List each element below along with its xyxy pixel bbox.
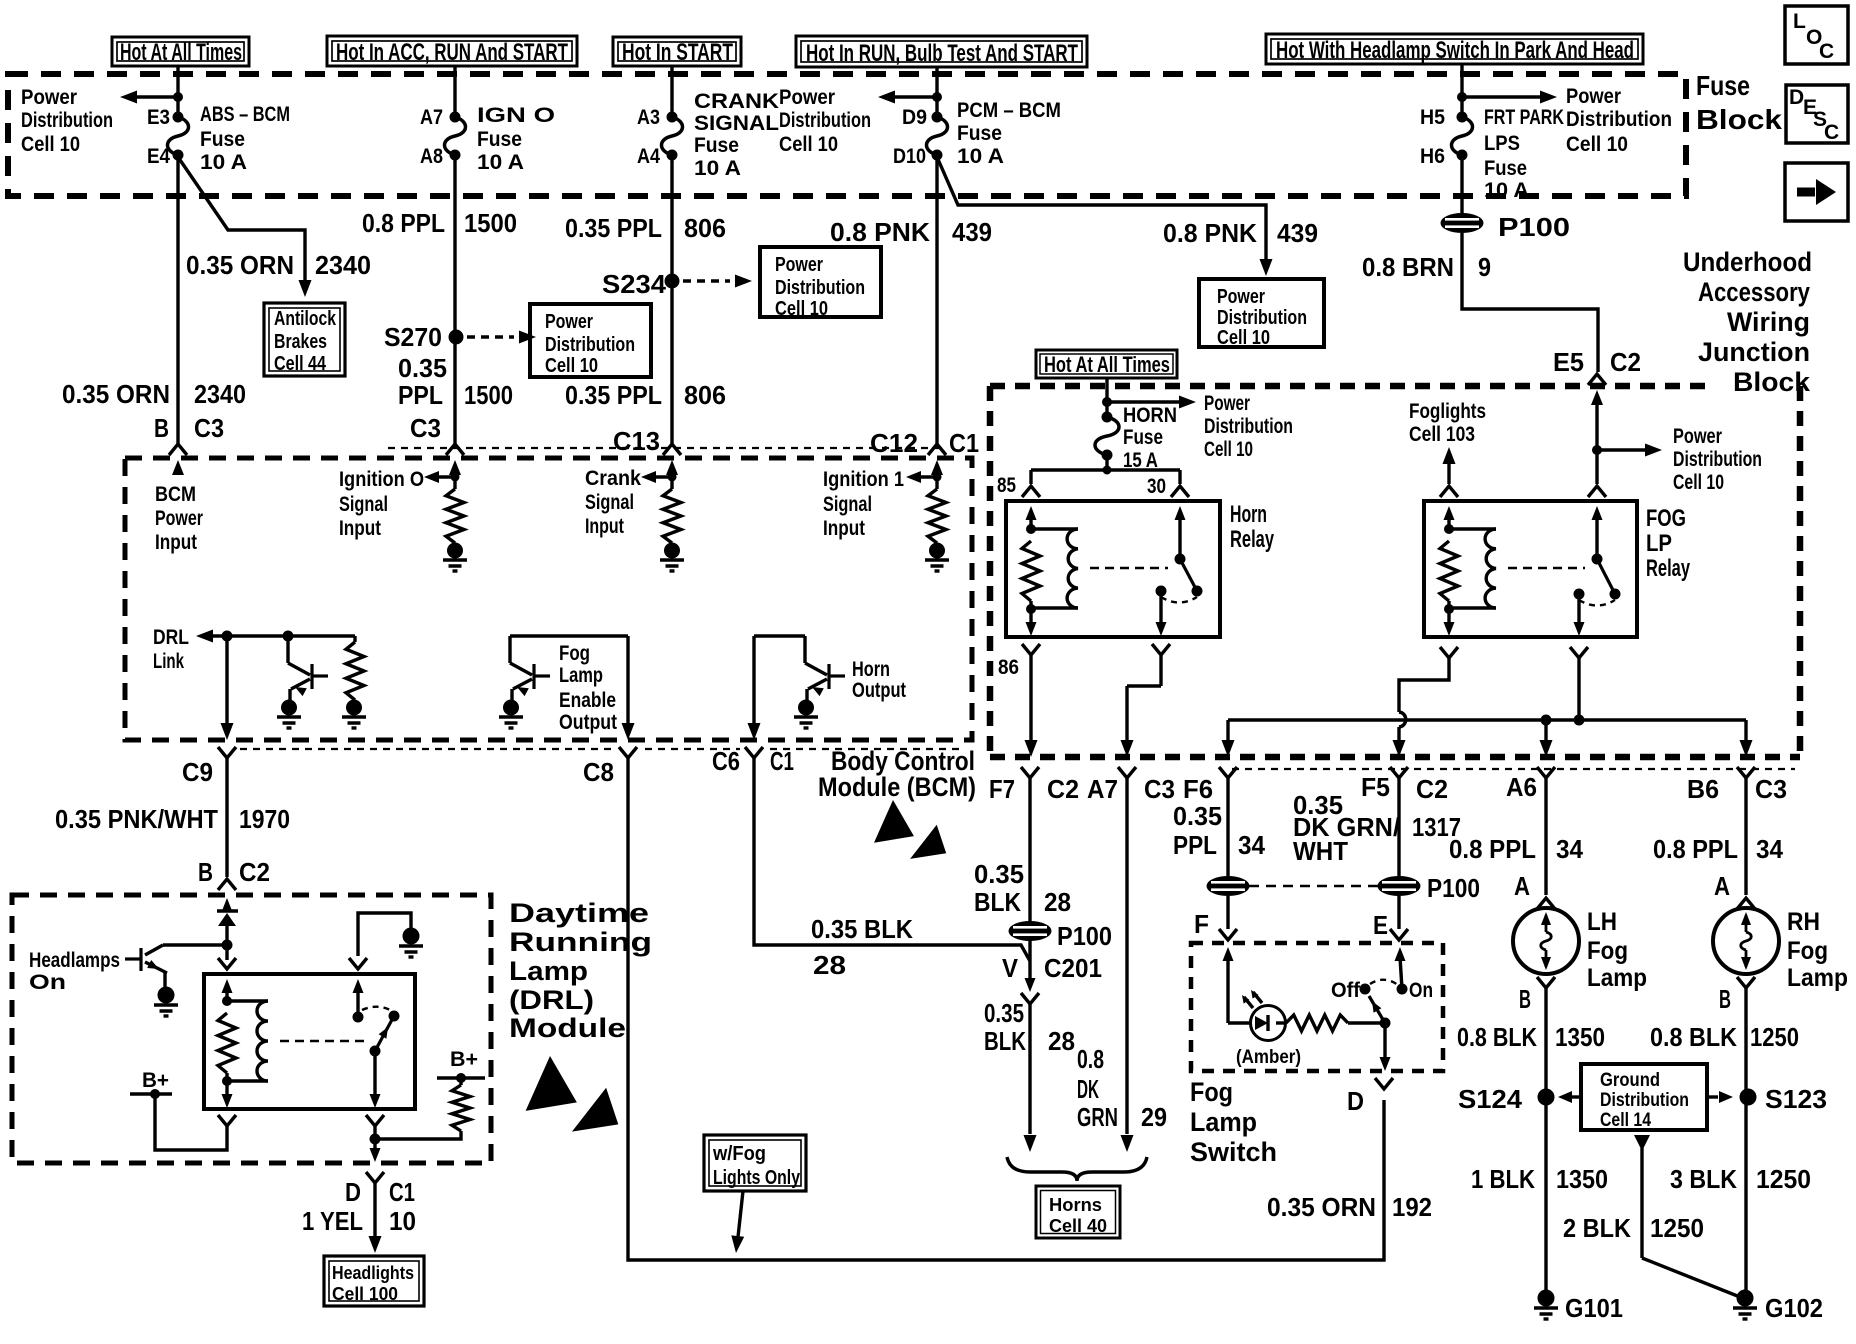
drl relay throw arc (dashed) [362,1007,392,1011]
wire: DRL output to Headlights cell [369,1183,382,1253]
svg-text:Fog: Fog [1587,937,1628,965]
arrowhead into Antilock Brakes box [299,280,312,297]
wire label 0.8 PPL 1500 [362,208,517,238]
svg-text:DRL: DRL [153,626,189,649]
wire: C201 down to horns [1024,1004,1037,1152]
svg-text:C2: C2 [239,857,270,887]
svg-text:PCM – BCM: PCM – BCM [957,99,1061,122]
connector chevron B6/C3 [1737,767,1755,778]
svg-text:On: On [29,971,66,994]
junction node above HORN fuse [1103,398,1112,407]
wire: fog relay switch output down to bus [1577,658,1580,720]
connector label D | C1 (DRL) [345,1177,415,1207]
corner icon box with right arrow [1785,163,1848,221]
horn relay pin 30 lead with up arrow [1175,506,1186,559]
svg-text:C1: C1 [949,428,979,458]
connector chevron A6 [1537,767,1555,778]
svg-text:Signal: Signal [823,493,872,516]
svg-text:10: 10 [389,1206,416,1236]
svg-text:Cell 10: Cell 10 [21,133,80,156]
svg-text:Ground: Ground [1600,1070,1660,1091]
drl relay coil node top [223,997,232,1006]
svg-text:0.35 BLK: 0.35 BLK [811,914,913,944]
wire: P100 down and over to junction block connector E5/C2 [1462,233,1598,372]
svg-text:A7: A7 [420,106,443,129]
pass-through grommet P100 (horn wire) [1009,922,1051,941]
svg-text:0.35 PPL: 0.35 PPL [565,380,662,410]
svg-text:Hot In RUN, Bulb Test And STAR: Hot In RUN, Bulb Test And START [806,40,1078,67]
svg-text:Switch: Switch [1190,1137,1277,1167]
svg-text:D: D [1789,86,1804,109]
wire: fuse E4 output down to BCM connector B/C3 [176,155,179,446]
wire: fuse D10 output down to BCM connector C12/C1 [935,155,938,446]
svg-text:Cell 44: Cell 44 [274,353,327,375]
svg-text:0.35 PNK/WHT: 0.35 PNK/WHT [55,804,218,834]
svg-text:Distribution: Distribution [1204,415,1293,438]
fog relay coil node bottom [1445,605,1454,614]
wire: horn output run from C6 joining horn wire [754,758,1030,961]
pass-through grommet P100 (F5 wire) [1378,877,1420,896]
pass-through grommet P100 (wire 5) [1441,214,1483,233]
wire: horn relay 86 down to BCM F7/C2 [1025,655,1038,757]
wire label 0.8 PPL 34 (RH) [1653,834,1784,864]
svg-text:BLK: BLK [974,887,1021,917]
arrow to Power Distribution Cell 10 (wire 5) [1462,91,1557,104]
label Power Distribution Cell 10 (wire 4) [779,86,871,156]
svg-text:ABS – BCM: ABS – BCM [200,103,290,126]
svg-text:C3: C3 [194,413,224,443]
svg-text:Off: Off [1331,979,1361,1002]
svg-text:HORN: HORN [1123,404,1177,427]
wire: DRL input down to relay coil [225,945,228,960]
svg-text:3 BLK: 3 BLK [1670,1164,1737,1194]
BCM ignition 0 input lead with up arrow [449,460,461,489]
svg-text:S124: S124 [1458,1084,1523,1114]
svg-text:Hot With Headlamp Switch In Pa: Hot With Headlamp Switch In Park And Hea… [1276,37,1634,64]
wire label 0.8 PNK 439 (main) [830,217,992,247]
horn relay coil output lead 86 with down arrow [1026,601,1037,636]
fog relay coil winding [1449,527,1496,530]
svg-text:Cell 14: Cell 14 [1600,1110,1651,1131]
svg-text:Horn: Horn [1230,501,1267,528]
fuse CRANK SIGNAL 10A (A3-A4) [667,112,677,122]
arrow to Power Distribution Cell 10 (fog feed) [1597,444,1662,457]
svg-text:Power: Power [545,311,593,333]
connector chevron LH lamp A [1537,898,1555,909]
svg-text:0.35: 0.35 [1173,801,1222,831]
svg-text:Fog: Fog [559,642,590,665]
connector chevron A7/C3 [1118,767,1136,778]
svg-text:806: 806 [684,213,726,243]
svg-text:Lamp: Lamp [1190,1107,1257,1137]
horn relay output contact node [1156,586,1166,596]
svg-text:H6: H6 [1420,145,1445,168]
svg-text:34: 34 [1756,834,1784,864]
svg-text:Lamp: Lamp [509,956,588,986]
wire: bus right end down to connector B6/C3 [1740,720,1753,757]
junction node on wire 5 [1458,93,1467,102]
svg-text:Module (BCM): Module (BCM) [818,772,976,802]
BCM ignition 1 pull-down resistor [928,489,946,543]
horn relay switch output lead with down arrow [1156,591,1167,636]
wire: below P100 to switch E [1397,896,1400,929]
connector chevron below horn relay switch output [1152,644,1170,655]
header label box: Hot At All Times (junction block) [1036,350,1177,378]
arrow Ignition 1 Signal Input [906,471,941,483]
wire: HORN fuse output splits to relay pins 85 and 30 [1031,455,1180,484]
svg-text:P100: P100 [1498,212,1570,242]
svg-text:B: B [1519,984,1531,1014]
drl relay coil node bottom [223,1077,232,1086]
svg-text:Hot At All Times: Hot At All Times [1044,352,1170,377]
wire label 0.35 ORN 192 [1267,1192,1432,1222]
svg-text:C8: C8 [583,757,614,787]
Body Control Module dashed outline [125,458,972,740]
horn relay switch blade [1180,559,1197,591]
svg-text:V: V [1002,953,1019,983]
svg-text:0.35: 0.35 [398,353,447,383]
connector label A7 | C3 [1087,774,1175,804]
ground distribution drop with arrow to G102 [1634,1135,1745,1299]
connector chevron wire 3 into BCM [663,444,681,455]
connector chevron wire 1 into BCM [169,444,187,455]
svg-text:Underhood: Underhood [1683,247,1812,277]
svg-text:C1: C1 [770,746,794,776]
svg-text:Fuse: Fuse [1696,70,1750,101]
svg-text:Signal: Signal [339,493,388,516]
svg-text:Junction: Junction [1698,337,1810,367]
svg-text:Cell 10: Cell 10 [545,355,598,377]
value label FRT PARK LPS Fuse 10 A [1484,106,1564,202]
label Ignition 1 Signal Input [823,468,904,540]
svg-text:Distribution: Distribution [1566,108,1672,131]
junction node drl output / dropping resistor [370,1134,380,1144]
wire: drl relay output down to module edge [370,1126,381,1162]
destination box Antilock Brakes Cell 44 [264,303,345,376]
svg-text:Block: Block [1696,104,1782,135]
svg-text:B: B [154,413,169,443]
DRL input lead with up arrow and blocking diode [217,898,238,940]
svg-text:0.8 PNK: 0.8 PNK [830,217,930,247]
svg-text:0.35 PPL: 0.35 PPL [565,213,662,243]
wire: fuse H6 down to P100 grommet [1460,155,1463,214]
title Fog Lamp Switch [1190,1077,1277,1167]
drl relay internal resistor [218,1013,236,1073]
pin labels A7 A8 [420,106,443,168]
svg-text:0.35 ORN: 0.35 ORN [1267,1192,1376,1222]
svg-text:Distribution: Distribution [1217,307,1307,329]
destination box Power Distribution Cell 10 (S234) [760,247,881,320]
label Power Distribution Cell 10 (fog feed) [1673,425,1762,494]
svg-text:Fog: Fog [1190,1077,1233,1107]
svg-text:C3: C3 [1755,774,1787,804]
svg-text:(Amber): (Amber) [1236,1047,1301,1068]
connector chevron switch F [1219,929,1237,940]
connector chevron E5/C2 [1588,374,1606,385]
label Power Distribution Cell 10 (horn feed) [1204,392,1293,461]
relay K-drl: DRL relay box [204,974,415,1109]
svg-text:Cell 10: Cell 10 [1673,471,1724,494]
switch throw arc (dashed) [1370,980,1398,985]
horn relay throw arc (dashed) [1161,597,1197,603]
corner icon box DESC [1786,85,1848,144]
connector label F5 | C2 [1361,772,1448,804]
svg-text:D10: D10 [893,145,926,168]
svg-text:A8: A8 [420,145,443,168]
svg-text:Power: Power [779,86,835,109]
svg-text:F7: F7 [989,774,1015,804]
horn relay coil winding [1031,527,1078,530]
svg-text:Accessory: Accessory [1698,277,1810,307]
svg-text:C: C [1819,40,1834,63]
svg-text:9: 9 [1478,252,1491,282]
svg-text:1250: 1250 [1650,1213,1704,1243]
svg-text:0.8 PPL: 0.8 PPL [362,208,445,238]
connector label B | C3 [154,413,224,443]
connector chevron below fog relay switch output [1570,647,1588,658]
header label box: Hot At All Times (left) [112,37,249,66]
svg-text:Horns: Horns [1049,1195,1102,1215]
svg-text:C3: C3 [410,413,441,443]
title Body Control Module (BCM) [818,746,976,802]
connector chevron below drl relay coil [218,1115,236,1126]
connector label C6 | C1 [712,746,794,776]
Underhood junction block dashed outline [990,386,1800,757]
wire: bus down to connector A6 [1540,720,1553,757]
transistor Q4 headlamps-on sense with ground [125,945,226,1016]
arrow Crank Signal Input [641,471,676,483]
splice node S124 [1538,1089,1554,1105]
fog lamp feed bus wire [1228,718,1746,721]
svg-text:Cell 10: Cell 10 [775,298,828,320]
svg-text:Hot In ACC, RUN And START: Hot In ACC, RUN And START [336,39,568,66]
fog relay blade end node [1610,589,1620,599]
svg-text:Block: Block [1733,367,1811,397]
svg-text:10 A: 10 A [694,157,741,180]
drl relay common contact node [370,1046,380,1056]
svg-text:A6: A6 [1506,772,1537,802]
svg-text:0.35 ORN: 0.35 ORN [62,379,170,409]
label RH Fog Lamp [1787,908,1848,992]
svg-text:Module: Module [509,1013,626,1043]
svg-text:1250: 1250 [1756,1164,1811,1194]
svg-text:Fog: Fog [1787,937,1828,965]
arrow to Power Distribution Cell 10 (wire 4) [878,91,937,104]
switch E lead with up arrow to On contact [1395,947,1406,989]
wire: LH lamp B down to splice S124 [1544,988,1547,1097]
wire: S124 down to ground G101 [1544,1097,1547,1290]
switch blade toward Off with arrow [1369,996,1385,1023]
connector label C12 | C1 [870,428,979,458]
svg-text:Lamp: Lamp [559,664,603,687]
destination box Horns Cell 40 [1036,1186,1120,1238]
wire: fog relay pin 30 feed [1595,450,1598,484]
connector chevron DRL relay coil feed [218,958,236,969]
svg-text:34: 34 [1556,834,1584,864]
battery feed B+ (left) to drl relay coil [130,1069,227,1150]
horn relay switch pivot [1175,554,1185,564]
svg-text:Power: Power [775,254,823,276]
header label box: Hot In START [613,37,741,66]
svg-text:P100: P100 [1057,921,1112,951]
switch common node [1380,1018,1390,1028]
connector label V | C201 [1002,953,1102,983]
ground inside BCM (DRL resistor) [347,700,362,715]
svg-text:(DRL): (DRL) [509,985,594,1015]
svg-text:Power: Power [1566,85,1621,108]
svg-text:Foglights: Foglights [1409,400,1486,423]
svg-text:LH: LH [1587,908,1617,936]
wire: bus left end down to connector F6 [1222,720,1235,757]
label DRL Link with left arrow [153,626,355,673]
tie S124 to Ground Distribution [1558,1091,1581,1103]
connector chevron below horn relay pin 86 [1022,644,1040,655]
svg-text:C13: C13 [613,426,660,456]
connector chevron RH lamp A [1737,898,1755,909]
svg-text:0.35 ORN: 0.35 ORN [186,250,294,280]
svg-text:Cell 40: Cell 40 [1049,1216,1107,1236]
horn relay pin 85 lead with up arrow [1026,506,1037,529]
svg-text:1350: 1350 [1555,1022,1605,1052]
wire label 0.35 BLK 28 (horn output run) [811,914,913,980]
svg-text:Ignition O: Ignition O [339,468,424,491]
label LH Fog Lamp [1587,908,1647,992]
thin connector row below junction block [1232,768,1795,770]
value label HORN Fuse 15 A [1123,404,1177,472]
fog relay switch pivot [1592,554,1602,564]
fog relay coil lead with up arrow [1444,506,1455,529]
horn relay coil node bottom [1027,605,1036,614]
connector chevron F6 [1219,767,1237,778]
header label box: Hot With Headlamp Switch In Park And Head [1266,34,1643,64]
drl relay coil output lead with down arrow [222,1073,233,1108]
Daytime Running Lamp module dashed outline [12,895,491,1163]
svg-text:CRANK: CRANK [694,90,779,113]
svg-text:Hot At All Times: Hot At All Times [120,39,242,66]
svg-text:Hot In START: Hot In START [622,39,733,66]
title Daytime Running Lamp (DRL) Module [509,898,652,1043]
connector chevron into DRL module [218,879,236,890]
svg-text:F: F [1194,909,1209,939]
svg-text:B: B [1719,984,1731,1014]
connector chevron F5/C2 [1390,767,1408,778]
svg-text:BLK: BLK [984,1026,1026,1056]
fog relay pin 30 lead with up arrow [1592,506,1603,559]
svg-text:A3: A3 [637,106,660,129]
svg-text:C12: C12 [870,428,918,458]
svg-text:E3: E3 [147,106,170,129]
svg-text:LPS: LPS [1484,132,1520,155]
label Horn Output [852,658,906,702]
svg-text:G102: G102 [1765,1293,1823,1323]
svg-text:0.8: 0.8 [1077,1044,1104,1074]
wire: BCM F7 horn coil ground down through P100 and C201 [1028,778,1031,979]
svg-text:0.8 PPL: 0.8 PPL [1653,834,1738,864]
svg-text:Distribution: Distribution [1673,448,1762,471]
svg-text:Cell 100: Cell 100 [332,1284,398,1304]
DRL link pull-up resistor [346,636,364,700]
svg-text:Cell 10: Cell 10 [1566,133,1628,156]
indicator LED (amber) with light rays [1228,990,1286,1041]
BCM ignition 1 input lead with up arrow [931,460,943,489]
wire: Hot In RUN feed down to PCM-BCM fuse [935,67,938,117]
svg-text:LP: LP [1646,530,1672,557]
fog relay coil-to-contact dashed actuation line [1508,567,1585,570]
svg-text:0.8 BRN: 0.8 BRN [1362,252,1454,282]
svg-text:Power: Power [1217,286,1265,308]
svg-text:A4: A4 [637,145,660,168]
connector chevron drl relay switch feed [349,958,367,969]
svg-text:Relay: Relay [1230,526,1274,553]
Fuse Block title [1696,70,1782,135]
fog relay coil output lead with down arrow [1444,601,1455,636]
junction node on wire 1 [174,93,183,102]
connector chevron fog relay pin 30 [1588,486,1606,497]
svg-text:B: B [198,857,213,887]
connector chevron relay pin 30 [1171,486,1189,497]
svg-text:Lamp: Lamp [1787,964,1848,992]
svg-text:2 BLK: 2 BLK [1563,1213,1631,1243]
drl relay switch feed lead with up arrow [353,979,364,1017]
svg-text:w/Fog: w/Fog [712,1143,766,1165]
transistor Q1 DRL link driver with ground [283,631,293,641]
wire label 0.35 BLK 28 (upper) [974,859,1071,917]
svg-text:1250: 1250 [1750,1022,1799,1052]
wire label 0.35 PPL 1500 (lower) [398,353,513,410]
svg-text:B+: B+ [450,1048,478,1071]
svg-text:10 A: 10 A [957,145,1004,168]
svg-text:28: 28 [1044,887,1071,917]
junction node switch output on bus [1574,715,1584,725]
connector chevron C8 [619,747,637,758]
fog relay internal resistor [1440,541,1458,601]
drl relay coil-to-contact dashed actuation line [280,1040,366,1043]
dashed tie between P100 grommets [1249,885,1379,888]
svg-text:D9: D9 [902,106,927,129]
svg-text:Input: Input [585,515,624,538]
ground G101 [1534,1290,1623,1323]
svg-text:Distribution: Distribution [545,334,635,356]
label Headlamps On [29,949,120,994]
svg-text:Wiring: Wiring [1727,307,1810,337]
value label CRANK SIGNAL Fuse 10 A [694,90,779,180]
fuse FRT PARK LPS 10A (H5-H6) [1457,112,1467,122]
svg-text:Power: Power [21,86,77,109]
wire: fuse A4 output down to BCM connector C13 [670,155,673,446]
label Foglights Cell 103 with up arrow [1409,400,1486,484]
transistor Q2 fog lamp enable driver with ground [508,636,511,663]
svg-text:0.35: 0.35 [984,998,1024,1028]
label Power Distribution Cell 10 (top left) [21,86,113,156]
svg-text:1350: 1350 [1556,1164,1608,1194]
svg-text:Fuse: Fuse [957,122,1002,145]
lamp LH Fog Lamp [1513,908,1579,974]
connector chevron below fog relay coil output [1440,647,1458,658]
svg-text:Headlamps: Headlamps [29,949,120,972]
svg-text:2340: 2340 [315,250,371,280]
svg-text:RH: RH [1787,908,1820,936]
svg-text:SIGNAL: SIGNAL [694,112,779,135]
wire label 0.35 PPL 806 (lower) [565,380,726,410]
drl relay coil lead with up arrow [222,979,233,1001]
svg-text:C9: C9 [182,757,213,787]
svg-text:F6: F6 [1183,774,1213,804]
fuse HORN 15A [1102,412,1112,422]
svg-text:0.8 BLK: 0.8 BLK [1457,1022,1537,1052]
switch On contact node [1397,984,1407,994]
header label box: Hot In RUN, Bulb Test And START [796,36,1087,67]
svg-text:Headlights: Headlights [332,1263,414,1283]
